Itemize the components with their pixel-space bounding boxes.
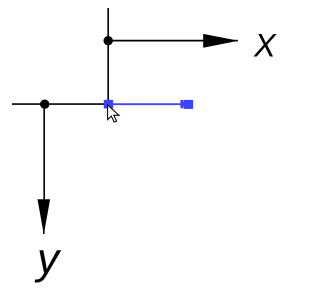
node: left junction dot xyxy=(40,100,49,109)
arrowhead: X-axis xyxy=(203,34,238,48)
node: upper junction dot xyxy=(104,36,113,45)
arrowhead base of selected blue line (mostly hidden by grip) xyxy=(180,100,183,108)
arrowhead tip spur: X-axis xyxy=(230,40,238,42)
svg-text:y: y xyxy=(34,235,62,284)
arrowhead tip spur: Y-axis xyxy=(43,226,45,234)
handle: end grip square xyxy=(184,100,194,109)
wire: X-axis shaft xyxy=(108,40,205,42)
arrowhead mid-bridge of selected blue line xyxy=(182,102,184,107)
svg-text:X: X xyxy=(253,27,277,63)
wire: vertical construction line xyxy=(107,8,109,101)
handle: start grip square xyxy=(104,100,113,109)
selected line (blue) xyxy=(109,103,182,105)
mouse cursor xyxy=(108,105,119,122)
wire: Y-axis shaft xyxy=(43,104,45,201)
wire: horizontal construction line xyxy=(12,103,104,105)
arrowhead: Y-axis xyxy=(38,199,51,234)
